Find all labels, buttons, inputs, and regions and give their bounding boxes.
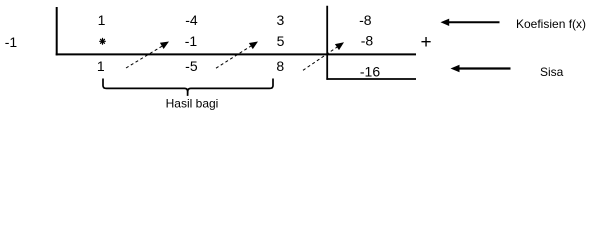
svg-text:-4: -4 [185,12,198,28]
dashed arrow 3 shaft [303,47,338,71]
vertical line V2 (remainder column bar) [326,6,328,80]
svg-text:-8: -8 [361,32,374,48]
svg-text:Hasil bagi: Hasil bagi [166,97,219,111]
svg-text:-5: -5 [185,58,198,74]
svg-text:Koefisien f(x): Koefisien f(x) [516,17,586,31]
svg-text:1: 1 [97,58,105,74]
svg-text:5: 5 [277,33,285,49]
left arrow A1 shaft (coefficients pointer) [449,21,500,23]
multiply mark * (row2 col1) [100,38,106,44]
dashed arrow 1 head [160,42,169,50]
vertical line V1 (left division bar) [56,7,58,55]
main horizontal line (addition bar) [56,53,416,55]
svg-text:-1: -1 [185,33,198,49]
svg-text:Sisa: Sisa [540,65,564,79]
dashed arrow 1 shaft [126,46,162,68]
left arrow A2 head [451,65,460,73]
svg-text:3: 3 [277,12,285,28]
brace (quotient bracket) [103,79,273,96]
dashed arrow 3 head [335,42,344,50]
dashed arrow 2 shaft [216,46,251,68]
svg-text:8: 8 [276,58,284,74]
dashed arrow 2 head [249,42,258,50]
left arrow A2 shaft (remainder pointer) [459,67,511,69]
svg-text:+: + [420,32,431,53]
svg-text:-16: -16 [360,64,380,80]
svg-text:-1: -1 [5,34,18,50]
bottom line of remainder box [326,78,416,80]
svg-text:1: 1 [98,12,106,28]
left arrow A1 head [441,19,450,26]
svg-text:-8: -8 [359,12,372,28]
